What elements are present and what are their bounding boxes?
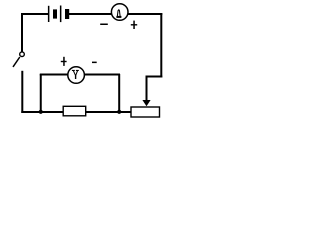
battery B1 plate long 1 bbox=[48, 6, 50, 22]
ammeter A1 letter A bbox=[116, 9, 121, 18]
wire voltmeter branch left vertical bbox=[40, 74, 42, 112]
rheostat R2 slider arrow bbox=[142, 100, 150, 106]
wire right side vertical bbox=[160, 13, 162, 78]
ammeter minus label bbox=[100, 24, 108, 26]
wire left side lower vertical bbox=[21, 71, 23, 113]
wire resistor to rheostat bbox=[86, 111, 132, 113]
voltmeter plus label bbox=[61, 57, 67, 66]
voltmeter V1 letter V bbox=[72, 70, 79, 79]
wire slider vertical bbox=[146, 76, 148, 101]
wire voltmeter branch right horizontal bbox=[84, 74, 120, 76]
voltmeter minus label bbox=[92, 62, 97, 64]
wire voltmeter branch right vertical bbox=[118, 74, 120, 112]
rheostat R2 body bbox=[131, 107, 160, 117]
junction node right bbox=[117, 110, 121, 114]
switch S1 blade bbox=[13, 57, 20, 67]
resistor R1 body bbox=[63, 106, 85, 116]
ammeter plus label bbox=[131, 21, 137, 29]
battery B1 plate short 1 bbox=[53, 9, 57, 18]
wire top-left segment bbox=[21, 13, 48, 15]
switch S1 pivot circle bbox=[20, 52, 25, 57]
junction node left bbox=[39, 110, 43, 114]
wire battery to ammeter bbox=[69, 13, 112, 15]
wire voltmeter branch left horizontal bbox=[40, 74, 68, 76]
wire elbow horizontal to slider bbox=[146, 76, 162, 78]
voltmeter V1 body bbox=[68, 67, 85, 84]
battery B1 plate long 2 bbox=[60, 6, 62, 23]
wire left side upper vertical bbox=[21, 13, 23, 52]
battery B1 plate short 2 bbox=[65, 9, 69, 19]
ammeter A1 body bbox=[111, 4, 128, 21]
wire bottom-left segment bbox=[21, 111, 63, 113]
wire ammeter to top-right corner bbox=[128, 13, 163, 15]
